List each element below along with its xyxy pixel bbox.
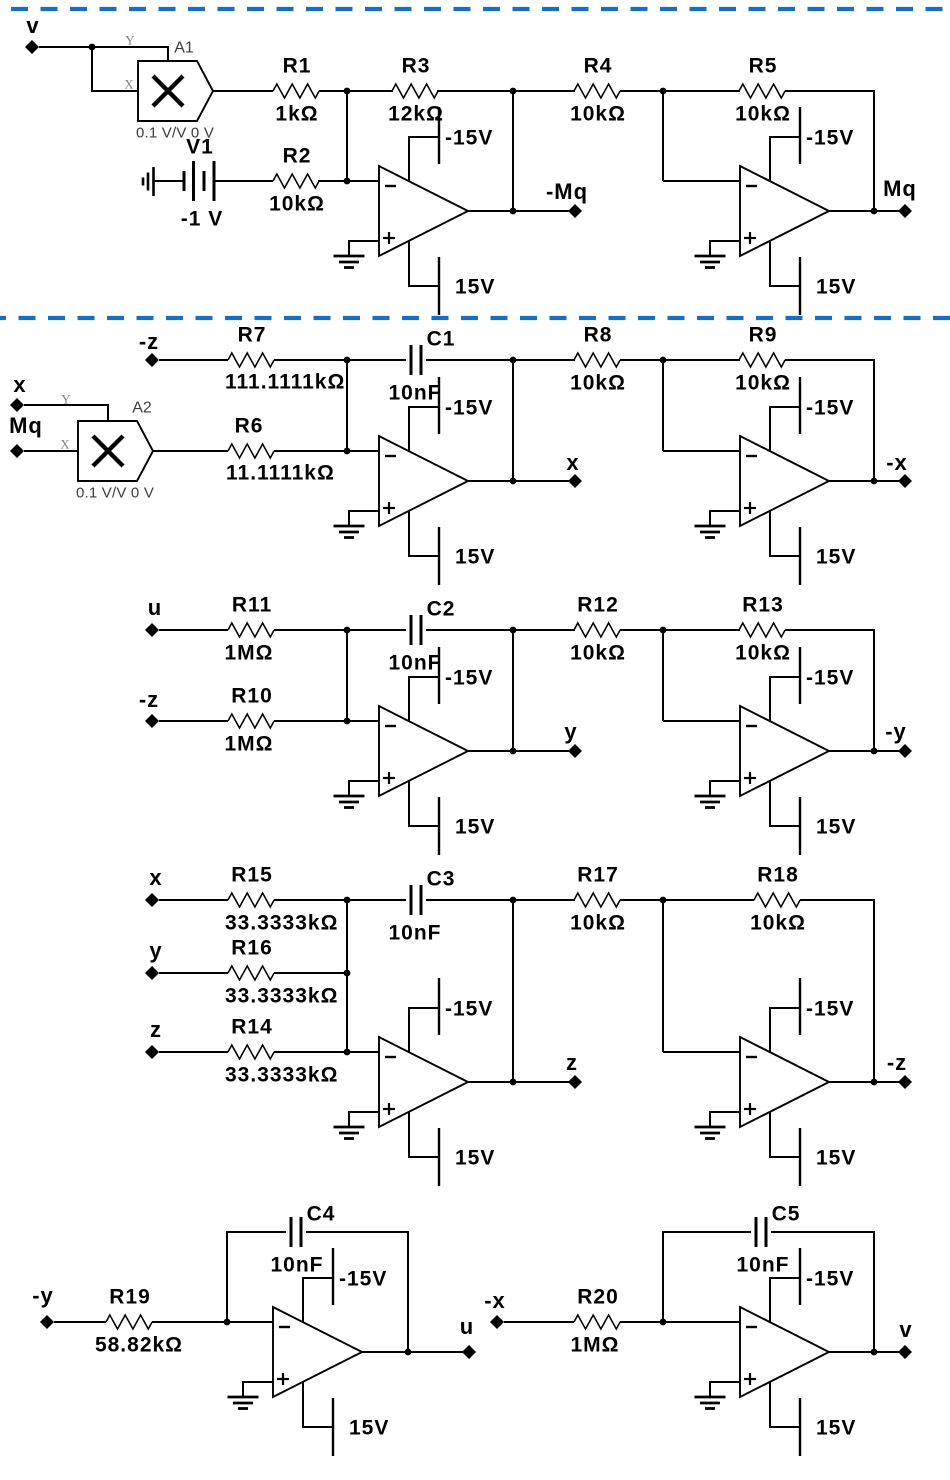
svg-text:Mq: Mq	[883, 176, 917, 201]
svg-text:C1: C1	[427, 328, 456, 351]
resistor R16	[228, 966, 274, 980]
power 15V supply (U5)	[409, 781, 439, 855]
svg-text:-15V: -15V	[806, 667, 854, 690]
svg-text:-x: -x	[484, 1288, 506, 1313]
junction output/R18 feedback	[871, 1079, 878, 1086]
svg-text:-x: -x	[886, 450, 908, 475]
ground (U9)	[228, 1382, 274, 1409]
svg-text:15V: 15V	[816, 1147, 856, 1170]
power 15V supply (U4)	[770, 511, 800, 585]
wire to op-amp4 inverting input	[663, 450, 740, 452]
wire op-amp2 output to node Mq	[828, 210, 905, 212]
dashed boundary line top	[11, 7, 950, 11]
junction output/R9 feedback	[871, 478, 878, 485]
svg-text:10nF: 10nF	[388, 922, 441, 945]
wire Y input to A1	[92, 47, 168, 61]
wire op-amp5 output to node y	[468, 750, 575, 752]
svg-text:-z: -z	[139, 687, 159, 712]
resistor R18	[754, 893, 800, 907]
svg-text:10nF: 10nF	[388, 382, 441, 405]
resistor R14	[228, 1045, 274, 1059]
capacitor C1	[411, 345, 421, 375]
ground (U6)	[695, 781, 741, 808]
wire feedback up to C5	[663, 1232, 751, 1322]
node -z output	[898, 1075, 912, 1089]
svg-text:1kΩ: 1kΩ	[275, 103, 318, 126]
svg-text:z: z	[150, 1017, 162, 1042]
junction summing node op-amp5	[344, 718, 351, 725]
wire R7 to C1	[274, 359, 406, 361]
wire R3 to R4	[437, 90, 575, 92]
wire op-amp3 output to node x	[468, 480, 575, 482]
wire op-amp10 output to node v	[828, 1351, 905, 1353]
svg-text:-15V: -15V	[445, 127, 493, 150]
svg-text:10kΩ: 10kΩ	[570, 372, 626, 395]
power -15V supply (U4)	[770, 377, 800, 451]
wire C3 to R17	[426, 899, 575, 901]
wire -x to R20	[504, 1321, 574, 1323]
node y output	[568, 744, 582, 758]
junction C1/R8/output feedback	[510, 357, 517, 364]
op-amp U4	[740, 436, 829, 526]
svg-text:-z: -z	[139, 329, 159, 354]
wire R13 feedback to output -y	[785, 630, 874, 751]
svg-text:33.3333kΩ: 33.3333kΩ	[225, 1064, 338, 1087]
resistor R12	[574, 623, 620, 637]
power -15V supply (U5)	[409, 647, 439, 721]
junction R3/R4/output feedback	[510, 88, 517, 95]
wire op-amp1 output to node -Mq	[468, 210, 575, 212]
power -15V supply (U1)	[409, 107, 439, 181]
svg-text:1MΩ: 1MΩ	[224, 733, 273, 756]
node v output	[898, 1345, 912, 1359]
wire feedback up to C4	[227, 1232, 286, 1322]
battery V1	[184, 161, 214, 201]
svg-text:R20: R20	[577, 1286, 619, 1309]
node x input row4	[145, 893, 159, 907]
power 15V supply (U3)	[409, 511, 439, 585]
resistor R10	[228, 714, 274, 728]
junction R4/R5/op-amp2 input	[660, 88, 667, 95]
svg-text:10kΩ: 10kΩ	[750, 912, 806, 935]
svg-text:R6: R6	[235, 415, 264, 438]
capacitor C2	[411, 615, 421, 645]
svg-text:15V: 15V	[816, 1417, 856, 1440]
node z input row4	[145, 1045, 159, 1059]
op-amp U7	[379, 1037, 468, 1127]
wire y to R16	[159, 972, 228, 974]
junction R7/C1/summing column	[344, 357, 351, 364]
junction output/C2 feedback	[510, 748, 517, 755]
op-amp U6	[740, 706, 829, 796]
svg-text:15V: 15V	[816, 816, 856, 839]
wire R9 feedback to output -x	[785, 360, 874, 481]
wire ground to V1	[154, 180, 184, 182]
svg-text:C4: C4	[307, 1203, 336, 1226]
wire R10 to op-amp5 inverting input	[274, 720, 379, 722]
wire -y to R19	[54, 1321, 106, 1323]
node -y output	[898, 744, 912, 758]
resistor R4	[574, 84, 620, 98]
wire z to R14	[159, 1051, 228, 1053]
resistor R20	[574, 1315, 620, 1329]
resistor R3	[392, 84, 438, 98]
wire R2 to op-amp1 inverting input	[318, 180, 379, 182]
svg-text:-15V: -15V	[445, 667, 493, 690]
node -Mq	[568, 204, 582, 218]
junction output/C5 feedback	[871, 1349, 878, 1356]
junction R16/summing column	[344, 970, 351, 977]
wire R16 to summing column	[274, 972, 347, 974]
svg-text:111.1111kΩ: 111.1111kΩ	[225, 371, 345, 394]
resistor R11	[228, 623, 274, 637]
svg-text:15V: 15V	[816, 276, 856, 299]
svg-text:15V: 15V	[455, 276, 495, 299]
node -y input	[40, 1315, 54, 1329]
wire R5 feedback to output Mq	[785, 91, 874, 211]
wire op-amp4 output to node -x	[828, 480, 905, 482]
multiplier A1	[138, 61, 213, 121]
svg-text:10nF: 10nF	[736, 1254, 789, 1277]
node -x input	[490, 1315, 504, 1329]
svg-text:10kΩ: 10kΩ	[735, 103, 791, 126]
wire A1 output to R1	[213, 90, 273, 92]
svg-text:Y: Y	[61, 392, 71, 407]
wire feedback right vertical (C1)	[512, 360, 514, 481]
op-amp U5	[379, 706, 468, 796]
ground (U3)	[334, 511, 380, 538]
svg-text:X: X	[60, 437, 70, 452]
wire R11 to C2	[274, 629, 406, 631]
junction summing node op-amp9	[224, 1319, 231, 1326]
power 15V supply (U2)	[770, 241, 800, 315]
svg-text:1MΩ: 1MΩ	[570, 1334, 619, 1357]
node -z input row3	[145, 714, 159, 728]
svg-text:10nF: 10nF	[388, 652, 441, 675]
wire op-amp6 output to node -y	[828, 750, 905, 752]
wire Mq to A2 X input	[24, 450, 78, 452]
svg-text:v: v	[899, 1317, 912, 1342]
resistor R13	[739, 623, 785, 637]
svg-text:R14: R14	[231, 1016, 273, 1039]
svg-text:R1: R1	[283, 55, 312, 78]
node y input row4	[145, 966, 159, 980]
resistor R17	[574, 893, 620, 907]
wire R1 to R3 node	[319, 90, 393, 92]
resistor R1	[273, 84, 319, 98]
resistor R8	[574, 353, 620, 367]
wire C5 to output v	[771, 1232, 874, 1352]
svg-text:10kΩ: 10kΩ	[570, 912, 626, 935]
svg-text:Y: Y	[125, 33, 135, 48]
svg-text:R10: R10	[231, 685, 273, 708]
power -15V supply (U8)	[770, 978, 800, 1052]
junction output/C4 feedback	[405, 1349, 412, 1356]
wire to op-amp6 inverting input	[663, 720, 740, 722]
svg-text:15V: 15V	[349, 1417, 389, 1440]
power 15V supply (U8)	[770, 1112, 800, 1186]
svg-text:15V: 15V	[455, 816, 495, 839]
junction C3/R17/output feedback	[510, 897, 517, 904]
wire feedback left vertical (C2)	[346, 630, 348, 721]
svg-text:-15V: -15V	[806, 397, 854, 420]
junction output/C3 feedback	[510, 1079, 517, 1086]
svg-text:R15: R15	[231, 864, 273, 887]
junction R17/R18/op-amp8 input	[660, 897, 667, 904]
svg-text:y: y	[564, 719, 577, 744]
wire op-amp7 output to node z	[468, 1081, 575, 1083]
node u input	[145, 623, 159, 637]
svg-text:R7: R7	[238, 324, 267, 347]
power -15V supply (U3)	[409, 377, 439, 451]
svg-text:R17: R17	[577, 864, 619, 887]
capacitor C5	[756, 1217, 766, 1247]
op-amp U1	[379, 166, 468, 256]
svg-text:-y: -y	[885, 719, 907, 744]
node -x output	[898, 474, 912, 488]
resistor R5	[739, 84, 785, 98]
wire feedback right vertical (C3)	[512, 900, 514, 1082]
svg-text:1MΩ: 1MΩ	[224, 642, 273, 665]
svg-text:R13: R13	[742, 594, 784, 617]
junction output/R3 feedback	[510, 208, 517, 215]
wire C1 to R8	[426, 359, 575, 361]
svg-text:10kΩ: 10kΩ	[570, 642, 626, 665]
junction R12/R13/op-amp6 input	[660, 627, 667, 634]
svg-text:y: y	[149, 938, 162, 963]
op-amp U9	[273, 1307, 362, 1397]
wire R14 to op-amp7 inverting input	[274, 1051, 379, 1053]
wire -z to R10	[159, 720, 228, 722]
svg-text:X: X	[124, 77, 134, 92]
svg-text:10kΩ: 10kΩ	[735, 642, 791, 665]
svg-text:C5: C5	[772, 1203, 801, 1226]
wire to op-amp8 inverting input	[663, 1051, 740, 1053]
svg-text:R9: R9	[749, 324, 778, 347]
svg-text:11.1111kΩ: 11.1111kΩ	[226, 462, 335, 485]
wire R20 to op-amp10 inverting input	[620, 1321, 740, 1323]
wire op-amp8 output to node -z	[828, 1081, 905, 1083]
dashed boundary line middle	[0, 316, 950, 320]
svg-text:10nF: 10nF	[270, 1254, 323, 1277]
op-amp U10	[740, 1307, 829, 1397]
svg-text:R3: R3	[402, 55, 431, 78]
wire A2 output to R6	[153, 450, 228, 452]
svg-text:10kΩ: 10kΩ	[570, 103, 626, 126]
power -15V supply (U7)	[409, 978, 439, 1052]
svg-text:R18: R18	[757, 864, 799, 887]
svg-text:A1: A1	[174, 40, 194, 57]
wire V1 to R2	[215, 180, 273, 182]
junction output/R5 feedback	[871, 208, 878, 215]
node Mq input	[10, 444, 24, 458]
svg-text:-15V: -15V	[806, 127, 854, 150]
wire feedback right vertical (C2)	[512, 630, 514, 751]
ground (U4)	[695, 511, 741, 538]
junction R8/R9/op-amp4 input	[660, 357, 667, 364]
svg-text:v: v	[26, 13, 39, 38]
wire summing column vertical	[346, 900, 348, 1052]
svg-text:-15V: -15V	[806, 1268, 854, 1291]
svg-text:0.1 V/V 0 V: 0.1 V/V 0 V	[76, 484, 154, 501]
wire R6 to op-amp3 inverting input	[274, 450, 379, 452]
power 15V supply (U9)	[303, 1382, 333, 1456]
junction summing node op-amp1	[344, 178, 351, 185]
power 15V supply (U6)	[770, 781, 800, 855]
wire x to A2 Y input	[24, 405, 108, 421]
wire R19 to op-amp9 inverting input	[152, 1321, 273, 1323]
multiplier A2	[78, 421, 153, 481]
svg-text:-15V: -15V	[339, 1268, 387, 1291]
resistor R19	[106, 1315, 152, 1329]
svg-text:R11: R11	[232, 594, 272, 617]
power 15V supply (U10)	[770, 1382, 800, 1456]
node Mq	[898, 204, 912, 218]
svg-text:R5: R5	[749, 55, 778, 78]
ground (U1)	[334, 241, 380, 268]
wire C2 to R12	[426, 629, 575, 631]
wire op-amp9 output to node u	[362, 1351, 469, 1353]
power -15V supply (U6)	[770, 647, 800, 721]
ground (U5)	[334, 781, 380, 808]
junction R11/C2/summing column	[344, 627, 351, 634]
wire R17 node down to op-amp8 input	[662, 900, 664, 1052]
node v	[25, 40, 39, 54]
wire v to junction	[39, 46, 92, 48]
wire x to R15	[159, 899, 228, 901]
capacitor C4	[291, 1217, 301, 1247]
resistor R7	[228, 353, 274, 367]
svg-text:A2: A2	[132, 400, 152, 417]
wire R8 to R9	[620, 359, 740, 361]
svg-text:15V: 15V	[455, 1147, 495, 1170]
wire C4 to output u	[306, 1232, 408, 1352]
node u output	[462, 1345, 476, 1359]
junction node v split	[89, 44, 96, 51]
op-amp U8	[740, 1037, 829, 1127]
svg-text:15V: 15V	[816, 546, 856, 569]
wire to op-amp2 inverting input	[663, 180, 740, 182]
svg-text:10kΩ: 10kΩ	[269, 193, 325, 216]
svg-text:x: x	[13, 372, 26, 397]
svg-text:15V: 15V	[455, 546, 495, 569]
svg-text:33.3333kΩ: 33.3333kΩ	[225, 912, 338, 935]
power 15V supply (U1)	[409, 241, 439, 315]
wire R17 to R18	[620, 899, 754, 901]
wire R18 feedback to output -z	[800, 900, 874, 1082]
svg-text:-15V: -15V	[445, 397, 493, 420]
node -z input	[145, 353, 159, 367]
svg-text:-y: -y	[32, 1283, 54, 1308]
power -15V supply (U2)	[770, 107, 800, 181]
junction R15/C3/summing column	[344, 897, 351, 904]
resistor R15	[228, 893, 274, 907]
wire u to R11	[159, 629, 228, 631]
svg-text:R2: R2	[283, 145, 312, 168]
op-amp U3	[379, 436, 468, 526]
ground (battery V1)	[143, 167, 154, 196]
svg-text:R12: R12	[577, 594, 619, 617]
power -15V supply (U9)	[303, 1248, 333, 1322]
junction summing node op-amp3	[344, 448, 351, 455]
svg-text:R19: R19	[109, 1286, 151, 1309]
wire R15 to C3	[274, 899, 406, 901]
ground (U7)	[334, 1112, 380, 1139]
svg-text:-15V: -15V	[806, 998, 854, 1021]
ground (U2)	[695, 241, 741, 268]
svg-text:58.82kΩ: 58.82kΩ	[95, 1334, 183, 1357]
svg-text:R4: R4	[584, 55, 613, 78]
wire feedback left vertical (R3)	[346, 91, 348, 181]
svg-text:C2: C2	[427, 598, 456, 621]
svg-text:x: x	[566, 450, 579, 475]
wire R12 to R13	[620, 629, 740, 631]
wire R4 node down to op-amp2 input	[662, 91, 664, 181]
svg-text:z: z	[566, 1050, 578, 1075]
svg-text:-1 V: -1 V	[181, 208, 224, 231]
junction summing node op-amp10	[660, 1319, 667, 1326]
resistor R6	[228, 444, 274, 458]
junction C2/R12/output feedback	[510, 627, 517, 634]
svg-text:-z: -z	[887, 1050, 907, 1075]
junction output/C1 feedback	[510, 478, 517, 485]
svg-text:u: u	[460, 1314, 474, 1339]
wire R12 node down to op-amp6 input	[662, 630, 664, 721]
node z output	[568, 1075, 582, 1089]
svg-text:V1: V1	[186, 136, 214, 159]
wire X input to A1	[92, 47, 138, 91]
svg-text:12kΩ: 12kΩ	[388, 103, 444, 126]
ground (U10)	[695, 1382, 741, 1409]
svg-text:R16: R16	[231, 937, 273, 960]
node x input	[10, 398, 24, 412]
op-amp U2	[740, 166, 829, 256]
junction summing node op-amp7	[344, 1049, 351, 1056]
svg-text:33.3333kΩ: 33.3333kΩ	[225, 985, 338, 1008]
wire feedback left vertical (C1)	[346, 360, 348, 451]
power -15V supply (U10)	[770, 1248, 800, 1322]
svg-text:x: x	[149, 865, 162, 890]
svg-text:Mq: Mq	[9, 413, 43, 438]
node x output	[568, 474, 582, 488]
svg-text:-15V: -15V	[445, 998, 493, 1021]
svg-text:R8: R8	[584, 324, 613, 347]
wire R4 to R5	[620, 90, 740, 92]
wire -z to R7	[159, 359, 228, 361]
svg-text:u: u	[148, 595, 162, 620]
resistor R2	[273, 174, 319, 188]
junction R1/R3/summing	[344, 88, 351, 95]
wire R8 node down to op-amp4 input	[662, 360, 664, 451]
svg-text:-Mq: -Mq	[546, 179, 588, 204]
wire feedback right vertical (R3)	[512, 91, 514, 211]
resistor R9	[739, 353, 785, 367]
capacitor C3	[411, 885, 421, 915]
ground (U8)	[695, 1112, 741, 1139]
junction output/R13 feedback	[871, 748, 878, 755]
svg-text:10kΩ: 10kΩ	[735, 372, 791, 395]
svg-text:C3: C3	[427, 868, 456, 891]
power 15V supply (U7)	[409, 1112, 439, 1186]
